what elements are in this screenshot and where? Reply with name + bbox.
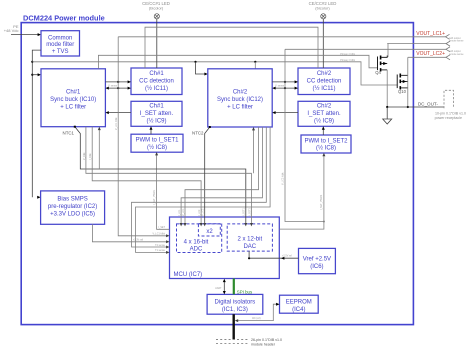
power receptacle dashed: [435, 90, 466, 120]
svg-text:Ch#1: Ch#1: [149, 103, 164, 109]
block: Ch#2 Sync buck: [208, 69, 272, 127]
svg-text:(bicolor): (bicolor): [149, 5, 164, 10]
wire: ch2 ntc to MCU row4: [132, 127, 267, 249]
svg-text:PWM to I_SET1: PWM to I_SET1: [135, 138, 179, 144]
wire: VLC2 sense down to MCU: [285, 49, 325, 222]
wire: ch1 to CC1 link A: [105, 80, 131, 83]
wire: NTC2: [203, 126, 211, 226]
svg-text:pre-regulator (IC2): pre-regulator (IC2): [48, 204, 97, 210]
svg-text:Ch#1: Ch#1: [149, 71, 164, 77]
block: MCU: [170, 217, 280, 279]
LED CE/CC#2: [309, 1, 337, 19]
svg-text:EEPROM: EEPROM: [286, 299, 312, 305]
svg-text:I_SET_PWM2: I_SET_PWM2: [320, 194, 323, 210]
svg-text:(½ IC9): (½ IC9): [146, 117, 166, 124]
wire: VOUT_LC1+ sense rail: [118, 36, 445, 38]
svg-text:power receptacle: power receptacle: [435, 116, 462, 120]
svg-text:(IC4): (IC4): [292, 307, 305, 313]
wire: isolator to module header thick: [232, 314, 234, 339]
wire: ch1 to CC1 link B double arrow: [105, 87, 131, 90]
wire Q4 source to Q10 drain: [386, 70, 388, 107]
svg-text:DCM224 Power module: DCM224 Power module: [23, 13, 105, 22]
svg-text:I_LC2: I_LC2: [198, 209, 201, 216]
svg-text:CC detection: CC detection: [307, 78, 342, 84]
svg-text:V_LC2: V_LC2: [202, 208, 205, 216]
wire: CMF output down-left rail: [32, 50, 41, 197]
wire: VLC1 sense down to MCU: [118, 37, 169, 238]
block: Ch#2 I_SET atten: [298, 101, 350, 126]
svg-text:I_SET atten.: I_SET atten.: [307, 111, 341, 117]
wire: I_SET1 to ch1 buck: [105, 111, 131, 114]
wire: ch1 fdbk to DAC2: [86, 127, 252, 224]
svg-text:remote sense: remote sense: [449, 53, 464, 56]
svg-text:PWM to I_SET2: PWM to I_SET2: [304, 138, 348, 144]
svg-text:Ch#2: Ch#2: [233, 89, 248, 95]
svg-text:DC_OUT-: DC_OUT-: [418, 101, 439, 106]
block: common mode filter + TVS: [41, 31, 80, 56]
svg-text:I_SET1: I_SET1: [243, 207, 246, 216]
block: digital isolators: [207, 294, 263, 314]
svg-text:remote sense: remote sense: [449, 40, 464, 43]
svg-text:Q10: Q10: [398, 89, 407, 94]
svg-text:+3.3V LDO (IC5): +3.3V LDO (IC5): [50, 211, 95, 217]
svg-text:(½ IC8): (½ IC8): [147, 144, 167, 151]
svg-text:x2: x2: [206, 229, 213, 235]
svg-text:(½ IC11): (½ IC11): [145, 85, 168, 92]
svg-text:NTC1: NTC1: [63, 130, 75, 135]
svg-text:T1 sense: T1 sense: [155, 249, 166, 252]
svg-text:V_LC1: V_LC1: [182, 208, 185, 216]
svg-text:Ch#1: Ch#1: [66, 89, 81, 95]
svg-text:ADC: ADC: [190, 247, 203, 253]
module boundary: [21, 23, 413, 325]
wire LED1 to CC det1: [156, 19, 158, 68]
block: Ch#1 Sync buck: [41, 69, 105, 127]
svg-text:I_SET2: I_SET2: [248, 207, 251, 216]
block: Ch#2 CC detection: [298, 68, 350, 95]
svg-text:V_LC1 fdbk: V_LC1 fdbk: [115, 117, 118, 130]
wire: CC1 top rail R29: [145, 27, 318, 68]
wire: bias to MCU: [92, 224, 169, 243]
block: Bias SMPS: [41, 191, 105, 224]
svg-text:T2 sense: T2 sense: [155, 244, 166, 247]
wire: drive up into ch2: [252, 127, 255, 173]
node VOUT_LC2+: [408, 56, 446, 58]
svg-text:+2.5V ref: +2.5V ref: [282, 255, 292, 258]
svg-text:I_SET: I_SET: [158, 226, 166, 229]
block: EEPROM: [280, 295, 319, 313]
wire: I2C to EEPROM: [235, 303, 280, 322]
svg-text:Ch#2: Ch#2: [317, 71, 332, 77]
svg-text:I_SET atten.: I_SET atten.: [140, 111, 174, 117]
wire: VOUT mid sense rail: [285, 48, 446, 50]
wire: ch2 fdbk to ADC a: [184, 127, 259, 226]
wire DC_OUT-: [387, 106, 444, 108]
wire: ch2 fdbk to ADC b: [180, 127, 263, 226]
wire: ch2 to CC2 link B: [272, 87, 298, 90]
wire: +48 distribution rail to ch2 and Q10 gate: [32, 62, 397, 85]
svg-text:Sync buck (IC12): Sync buck (IC12): [217, 97, 263, 103]
block: 2x12bit DAC dashed: [227, 224, 272, 251]
svg-text:10-pin 0.1"DIB v1.0: 10-pin 0.1"DIB v1.0: [435, 112, 466, 116]
wire: ch1 SW to Q4 gate: [98, 55, 377, 69]
wire: Vref to MCU/DAC: [248, 251, 299, 260]
wire: ch2 aux to MCU row5: [136, 127, 271, 254]
svg-text:Ch#2: Ch#2: [317, 103, 332, 109]
module header dashed: [216, 338, 282, 346]
wire: ch1 fdbk to x2: [92, 127, 202, 227]
node VOUT_LC1+ chevron: [446, 34, 450, 39]
svg-text:Vref +2.5V: Vref +2.5V: [303, 256, 331, 262]
svg-text:module header: module header: [251, 342, 276, 346]
svg-text:Bias SMPS: Bias SMPS: [57, 196, 87, 202]
svg-text:UART: UART: [215, 287, 222, 290]
svg-text:DAC: DAC: [243, 244, 256, 250]
wire: Q4 drain out: [387, 43, 446, 45]
svg-text:CC detection: CC detection: [139, 78, 174, 84]
wire: drop into ch2 top: [254, 62, 256, 69]
svg-text:+3.3V rail: +3.3V rail: [133, 239, 144, 242]
wire: NTC1: [74, 126, 246, 224]
svg-text:I_SET_PWM1: I_SET_PWM1: [153, 189, 156, 205]
svg-text:4 x 16-bit: 4 x 16-bit: [184, 240, 209, 246]
svg-text:mode filter: mode filter: [46, 42, 74, 48]
node junction dots on +48 rail: [31, 61, 33, 63]
transistor Q4: [375, 56, 387, 76]
svg-text:+ LC filter: + LC filter: [60, 104, 86, 110]
wire: I_SET2 to ch2 buck: [272, 111, 298, 114]
svg-text:Common: Common: [48, 35, 72, 41]
wire: PWM1 to I_SET1 atten: [150, 126, 153, 134]
wire: ch2 to CC2 link A: [272, 80, 298, 83]
block: PWM to I_SET2: [301, 135, 351, 153]
svg-text:I_fdbk: I_fdbk: [89, 153, 92, 161]
wire: +48V input: [11, 33, 41, 36]
block: 4x16bit ADC dashed: [177, 224, 222, 253]
svg-text:V_LC2 fdbk: V_LC2 fdbk: [281, 172, 284, 185]
wire: +48 arrow into bias block: [37, 196, 40, 199]
svg-text:VOUT_LC1+: VOUT_LC1+: [416, 31, 445, 37]
wire: MCU-isolator UART double arrow: [223, 279, 226, 295]
block: Ch#1 CC detection: [131, 68, 182, 95]
svg-text:+48 Vdc: +48 Vdc: [4, 28, 19, 33]
svg-text:I_LC1: I_LC1: [178, 209, 181, 216]
block: PWM to I_SET1: [131, 134, 183, 152]
svg-text:V. sense: V. sense: [275, 85, 285, 88]
wire: drive up into ch1: [98, 127, 101, 169]
svg-text:(bicolor): (bicolor): [315, 5, 330, 10]
svg-text:Digital isolators: Digital isolators: [215, 299, 256, 305]
wire: MCU to PWM2 feed: [279, 153, 325, 229]
svg-text:Primary I fdbk: Primary I fdbk: [340, 59, 356, 62]
svg-text:(½ IC11): (½ IC11): [313, 85, 336, 92]
wire: ch2 left feed: [194, 61, 207, 76]
svg-text:(IC1, IC3): (IC1, IC3): [222, 307, 248, 313]
block: Vref: [299, 248, 336, 273]
wire: +48 arrow into Ch1 buck: [32, 73, 41, 76]
svg-text:V. sense: V. sense: [108, 85, 118, 88]
wire: MCU to PWM1 feed: [155, 152, 169, 229]
transistor Q10: [397, 74, 408, 94]
block: x2 dashed: [198, 224, 220, 236]
wire: SPI bus green: [234, 279, 253, 295]
svg-text:V_fdbk: V_fdbk: [83, 152, 86, 160]
svg-text:SPI bus: SPI bus: [237, 289, 253, 294]
LED CE/CC#1: [142, 1, 170, 19]
svg-text:Q4: Q4: [375, 70, 381, 75]
svg-text:V_LC1 fdbk: V_LC1 fdbk: [153, 233, 166, 236]
svg-text:2 x 12-bit: 2 x 12-bit: [237, 237, 262, 243]
svg-text:+ TVS: + TVS: [52, 49, 69, 55]
svg-text:Primary I fdbk: Primary I fdbk: [340, 53, 356, 56]
svg-text:Sync buck (IC10): Sync buck (IC10): [50, 97, 96, 103]
wire: PWM2 to I_SET2 atten: [322, 126, 325, 135]
svg-text:MCU (IC7): MCU (IC7): [174, 272, 203, 278]
svg-text:+ LC filter: + LC filter: [227, 104, 253, 110]
svg-text:NTC2: NTC2: [192, 130, 204, 135]
ground: [383, 107, 392, 124]
svg-text:(½ IC9): (½ IC9): [314, 117, 334, 124]
wire LED2 to CC det2: [322, 19, 324, 68]
wire VOUT_LC2 corner down: [407, 57, 409, 107]
svg-text:(½ IC8): (½ IC8): [316, 145, 336, 152]
svg-text:(IC6): (IC6): [310, 264, 323, 270]
svg-text:VOUT_LC2+: VOUT_LC2+: [416, 51, 445, 57]
svg-text:26-pin 0.1"DIB v1.0: 26-pin 0.1"DIB v1.0: [251, 338, 282, 342]
svg-text:I2C (x2): I2C (x2): [252, 317, 261, 320]
block: Ch#1 I_SET atten: [131, 101, 182, 126]
wire Q4 drain up: [387, 43, 389, 57]
